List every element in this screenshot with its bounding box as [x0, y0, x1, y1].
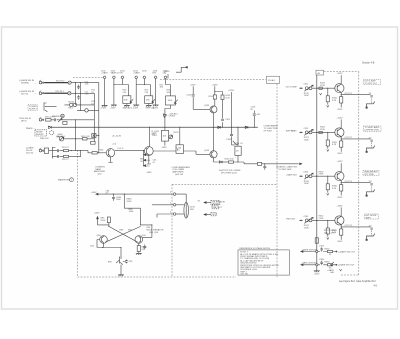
svg-text:Q64,133: Q64,133 — [175, 174, 184, 176]
svg-text:100K: 100K — [304, 139, 309, 141]
terminal delay B — [173, 204, 176, 207]
capacitor C85 — [123, 260, 128, 264]
wire Q334 emitter — [340, 180, 342, 195]
svg-text:OUT 21: OUT 21 — [345, 93, 353, 95]
wire Q324 emitter — [340, 137, 342, 152]
potentiometer arrow R364 — [331, 262, 334, 265]
wire base row 1 — [312, 87, 335, 89]
transistor Q64 follower — [144, 147, 153, 156]
resistor R325 — [340, 141, 343, 147]
wire Q324 collector — [340, 119, 342, 128]
svg-text:R52 27: R52 27 — [62, 159, 70, 161]
svg-text:10K: 10K — [160, 87, 164, 89]
wire row B — [302, 264, 336, 266]
svg-text:TRACE —: TRACE — — [26, 127, 37, 130]
ground TP2 — [111, 105, 117, 106]
wire input arrow 1 — [299, 87, 301, 89]
svg-text:Q84, Q94: Q84, Q94 — [149, 232, 159, 234]
resistor R364 — [328, 264, 333, 266]
resistor R160 — [213, 95, 216, 99]
capacitor plate coupling 1 — [370, 96, 373, 97]
svg-text:NE-2: NE-2 — [69, 108, 75, 110]
potentiometer R40 bal adj — [59, 137, 63, 141]
node annotation box right 3 — [363, 170, 379, 175]
wire input arrow 4 — [299, 220, 301, 222]
wire cal arrow 1 — [204, 202, 206, 204]
diode CR31 arrow — [58, 118, 62, 122]
resistor R146 — [229, 161, 234, 163]
ground TP4 — [133, 105, 139, 106]
svg-text:+300V: +300V — [164, 71, 171, 73]
svg-text:+GATE SIG: +GATE SIG — [286, 173, 297, 176]
terminal TP4 — [135, 76, 138, 79]
svg-text:50K: 50K — [146, 99, 150, 101]
capacitor C162 — [192, 95, 195, 96]
wire dashed boundary multivib vertical — [171, 184, 173, 277]
wire to R146 — [222, 161, 228, 163]
svg-text:8.2K: 8.2K — [332, 100, 337, 102]
wire Q344 collector — [340, 207, 342, 216]
connector J4 — [39, 149, 42, 152]
resistor base R314 47K — [327, 88, 328, 89]
wire row A out — [336, 251, 337, 252]
node notes box — [238, 250, 289, 275]
capacitor C364 — [320, 261, 323, 265]
capacitor C95 — [143, 245, 146, 250]
wire mid row b — [57, 151, 81, 157]
resistor base R344 27K — [327, 220, 328, 221]
ground R14 — [126, 104, 128, 106]
svg-text:OUT 22: OUT 22 — [345, 137, 353, 139]
svg-text:-150V: -150V — [101, 107, 107, 109]
svg-text:(DLY'D): (DLY'D) — [26, 152, 33, 154]
wire Q314 collector — [340, 75, 342, 84]
wire TP4 branch — [136, 85, 150, 96]
svg-text:R23 93.2: R23 93.2 — [56, 91, 65, 93]
capacitor C166 — [230, 134, 233, 135]
svg-text:R31 4.7K: R31 4.7K — [45, 116, 54, 118]
wire Q344 emitter — [340, 225, 342, 240]
svg-text:-150V: -150V — [337, 197, 343, 199]
node CRT plate lead 2 — [371, 142, 373, 148]
svg-text:-150V: -150V — [337, 153, 343, 155]
wire to delay line bottom — [176, 213, 184, 215]
resistor R51 — [64, 150, 69, 152]
svg-text:C161: C161 — [225, 119, 231, 121]
capacitor C149 stub — [263, 164, 266, 170]
svg-text:R145 330: R145 330 — [225, 159, 235, 161]
svg-text:10K: 10K — [163, 135, 167, 137]
svg-text:CAL OUT: CAL OUT — [213, 206, 223, 209]
resistor R345 — [340, 229, 343, 235]
svg-text:R38 4.7K: R38 4.7K — [40, 138, 49, 140]
wire out row to arrow — [262, 163, 299, 165]
svg-text:-GATE 20V/CM: -GATE 20V/CM — [302, 262, 317, 265]
wire row3b — [77, 109, 99, 111]
svg-text:270K: 270K — [319, 218, 324, 220]
wire dashed boundary left vertical — [77, 150, 79, 277]
junction dots bus A1 — [316, 88, 317, 89]
svg-text:WAVEFORM: WAVEFORM — [58, 179, 70, 182]
inductor box L146 — [176, 145, 184, 154]
svg-text:4.7K: 4.7K — [331, 233, 336, 235]
svg-text:+GATE 20V/CM: +GATE 20V/CM — [302, 248, 317, 251]
svg-text:-150V: -150V — [161, 147, 167, 149]
svg-text:AMPL: AMPL — [366, 217, 373, 220]
connector J3 — [39, 119, 42, 122]
svg-text:B1 B2: B1 B2 — [69, 101, 76, 103]
capacitor plate coupling 2 — [370, 140, 373, 141]
potentiometer R152 +150 adj — [161, 130, 168, 141]
capacitor trimmer input 3 — [304, 173, 313, 179]
svg-text:C331: C331 — [304, 172, 310, 174]
svg-text:SWP SIG: SWP SIG — [286, 131, 295, 133]
wire Q133 base — [193, 108, 210, 110]
resistor series input 2 — [319, 131, 322, 133]
transistor Q133 — [210, 106, 217, 113]
thermistor RT1 — [85, 109, 88, 112]
resistor R315 — [340, 97, 343, 103]
wire jog to out row — [234, 162, 258, 164]
wire Q324 output — [341, 138, 342, 139]
svg-text:C341: C341 — [304, 216, 310, 218]
capacitor C161 — [221, 119, 224, 120]
svg-text:270K: 270K — [320, 85, 325, 87]
wire Q94 emitter — [138, 243, 140, 253]
svg-text:CKT BD: CKT BD — [212, 203, 220, 205]
svg-text:SPLITTER Q143: SPLITTER Q143 — [221, 173, 237, 175]
svg-text:DLY'D SWP: DLY'D SWP — [286, 86, 298, 88]
diode CR141 on bus — [245, 126, 248, 128]
wire delay row3 — [157, 214, 173, 218]
svg-text:270K: 270K — [320, 129, 325, 131]
wire emitter row — [97, 152, 106, 154]
svg-text:Section 4-B: Section 4-B — [362, 62, 375, 65]
svg-text:220K: 220K — [127, 201, 132, 203]
wire row2 heavy — [44, 92, 67, 94]
ground Q94 — [136, 253, 142, 254]
resistor R44 on emitter row — [92, 152, 97, 154]
svg-text:Q133: Q133 — [204, 105, 210, 107]
wire row1 heavy — [44, 82, 68, 84]
ground row B chev — [340, 269, 342, 271]
svg-text:8.2K: 8.2K — [226, 98, 231, 100]
svg-text:R41 1.2K: R41 1.2K — [81, 136, 90, 138]
junction dots center — [113, 84, 114, 85]
wire delay row2 — [152, 204, 173, 206]
wire Q314 emitter — [340, 92, 342, 107]
wire bal row — [64, 138, 95, 140]
svg-text:220K: 220K — [101, 220, 106, 222]
resistor R33 — [63, 121, 67, 124]
wire R18 to +150 chain — [165, 105, 171, 130]
transistor E85 pickoff — [116, 257, 123, 275]
wire Q84 emitter — [103, 243, 105, 247]
capacitor trimmer input 4 — [304, 217, 313, 223]
svg-text:R21 93.2: R21 93.2 — [56, 80, 65, 82]
transistor Q94 — [135, 236, 143, 244]
svg-text:+125V: +125V — [337, 161, 344, 163]
diode CR150 at +150 adj — [163, 114, 166, 118]
switch SW1 bracket — [44, 103, 57, 112]
svg-text:FIG A-1: FIG A-1 — [268, 79, 276, 82]
svg-text:INVERT: INVERT — [36, 134, 44, 136]
ground TP1 — [102, 105, 108, 106]
transistor Q344 — [335, 216, 344, 225]
wire row4 drop — [75, 120, 77, 151]
svg-text:C162: C162 — [187, 95, 193, 97]
wire jog arrow to A1 — [176, 67, 185, 72]
svg-text:+100V: +100V — [212, 84, 219, 86]
node box A1 — [316, 70, 324, 75]
switch SW2 norm-invert dashed box — [35, 130, 54, 136]
svg-text:L54 .6: L54 .6 — [118, 148, 125, 150]
node CRT deflection plate 3 — [367, 189, 375, 194]
svg-text:-150V: -150V — [337, 109, 343, 111]
svg-text:CKT NO: CKT NO — [240, 273, 248, 275]
terminal TP3 — [121, 76, 124, 79]
wire base row 2 — [312, 131, 335, 133]
resistor base R324 47K — [327, 132, 328, 133]
svg-text:27K: 27K — [145, 92, 149, 94]
svg-text:R158 .01: R158 .01 — [234, 143, 243, 145]
wire input arrow 2 — [299, 132, 301, 134]
svg-text:CRT GRID: CRT GRID — [364, 174, 374, 176]
capacitor C354 — [320, 247, 323, 251]
svg-text:OUT 23: OUT 23 — [345, 181, 353, 183]
resistor R83 — [107, 217, 110, 223]
terminal TP1 — [103, 76, 106, 79]
svg-text:8.2K: 8.2K — [332, 188, 337, 190]
junction dots amp — [98, 135, 99, 136]
wire mid row a — [52, 151, 92, 153]
terminal delay A — [173, 193, 176, 196]
resistor R354 — [328, 250, 333, 252]
transistor Q314 — [335, 84, 344, 93]
node annotation box right 4 — [365, 214, 379, 219]
wire Q64 emitter down — [147, 155, 151, 164]
switch SW3 bracket — [49, 147, 57, 159]
lamp B2 — [73, 103, 76, 106]
wire +150V column — [192, 86, 194, 109]
ground TP6 — [153, 105, 159, 106]
wire TP2 branch — [114, 85, 128, 96]
wire Q64 collector up — [149, 127, 151, 147]
resistor R95 — [137, 246, 140, 252]
wire K2 stub — [96, 135, 99, 137]
node box FIG reference — [267, 76, 280, 83]
svg-text:see Figure B-2, Gate Amplifier: see Figure B-2, Gate Amplifier Ref — [339, 280, 376, 283]
svg-text:R354: R354 — [325, 248, 331, 250]
terminal TP2 — [113, 76, 116, 79]
resistor base R334 27K — [327, 176, 328, 177]
ground bus A1 bottom — [314, 271, 320, 272]
capacitor box C43 — [91, 141, 96, 144]
wire feedback right — [141, 225, 152, 238]
svg-text:100K: 100K — [304, 227, 309, 229]
svg-text:(+)GATE SIG OUT: (+)GATE SIG OUT — [338, 250, 356, 253]
svg-text:-150V: -150V — [133, 107, 139, 109]
svg-text:100K: 100K — [304, 95, 309, 97]
svg-text:REFERENCE VOLTAGE NOTES: REFERENCE VOLTAGE NOTES — [240, 247, 271, 250]
relay K1 box — [44, 148, 48, 153]
transistor Q334 — [335, 172, 344, 181]
potentiometer box R18 — [166, 96, 176, 105]
terminal delay C — [173, 213, 176, 216]
svg-text:TRIG SIG: TRIG SIG — [286, 219, 296, 221]
svg-text:C166: C166 — [226, 139, 232, 141]
svg-text:+100V: +100V — [337, 205, 344, 207]
wire base row 3 — [312, 175, 335, 177]
svg-text:8.2K: 8.2K — [332, 144, 337, 146]
wire Q54 collector out — [115, 150, 145, 152]
wire Q344 output — [341, 226, 342, 227]
inductor DL90 delay line — [184, 202, 189, 218]
connector bead row A — [316, 250, 318, 252]
wire R166 column — [232, 92, 235, 145]
svg-text:+100V: +100V — [94, 212, 101, 214]
svg-text:10K: 10K — [324, 233, 328, 235]
svg-text:SUPPLY: SUPPLY — [29, 109, 38, 111]
svg-text:100K: 100K — [304, 183, 309, 185]
svg-text:+125V: +125V — [337, 117, 344, 119]
svg-text:(DLY'D): (DLY'D) — [21, 93, 28, 95]
svg-text:TO CRT CKT: TO CRT CKT — [365, 83, 378, 85]
diode CR1 on trace row — [49, 126, 52, 128]
wire +100V column — [214, 86, 216, 106]
wire Q64 out to L146 — [153, 150, 176, 152]
transistor Q84 — [100, 236, 108, 244]
wire dashed boundary to A1 box — [324, 71, 359, 73]
label power dashed box — [28, 105, 37, 111]
svg-text:(-)GATE SIG OUT: (-)GATE SIG OUT — [338, 264, 355, 267]
svg-text:BAL ADJ: BAL ADJ — [57, 135, 65, 138]
resistor R21 variable circle — [68, 81, 71, 84]
test ticks column — [143, 151, 145, 167]
supply arrow +100V — [98, 217, 109, 225]
capacitor C51 — [58, 149, 59, 152]
capacitor trimmer input 2 — [304, 129, 313, 135]
transistor Q324 — [335, 128, 344, 137]
resistor R23 variable circle — [68, 92, 71, 95]
ground base 3 — [327, 193, 329, 195]
svg-text:→: → — [35, 93, 37, 95]
svg-text:OUT 24: OUT 24 — [345, 225, 353, 227]
svg-text:27K: 27K — [123, 92, 127, 94]
wire bus y127.3 main — [52, 126, 258, 128]
svg-text:CR150: CR150 — [169, 116, 176, 118]
lamp B1 — [70, 103, 73, 106]
svg-text:→: → — [35, 82, 37, 84]
svg-text:CRT: CRT — [212, 214, 217, 216]
wire bus x80.3 — [79, 83, 81, 111]
wire Q314 output — [341, 94, 342, 95]
svg-text:A +10.4V: A +10.4V — [113, 135, 122, 138]
wire dashed input row1 top link — [73, 77, 103, 79]
diode CR140 on bus — [218, 126, 221, 128]
wire cross coupling A — [109, 226, 138, 242]
capacitor C84 branch — [112, 194, 115, 201]
svg-text:270K: 270K — [319, 174, 324, 176]
svg-text:-150V: -150V — [146, 172, 152, 174]
node CRT deflection plate 4 — [367, 234, 375, 239]
wire Q84 base left — [97, 240, 100, 248]
svg-text:+150V: +150V — [190, 84, 197, 86]
svg-text:100K: 100K — [129, 211, 134, 213]
resistor R352 on bus — [315, 238, 318, 243]
node cal box 2 — [212, 206, 218, 209]
svg-text:(UPPER) GRID: (UPPER) GRID — [365, 130, 380, 132]
wire below R152 — [164, 141, 166, 146]
wire row1 to corner — [71, 83, 98, 153]
wire dashed boundary bottom right — [341, 274, 359, 276]
node +300V stub — [167, 74, 169, 78]
node CRT deflection plate 1 — [367, 101, 375, 106]
svg-text:GAIN ADJ: GAIN ADJ — [123, 106, 132, 109]
wire Q54 emitter bottom — [108, 157, 112, 163]
resistor R41 — [82, 138, 87, 140]
connector bead row B — [316, 264, 318, 266]
svg-text:+100V: +100V — [91, 192, 98, 194]
svg-text:R51 27: R51 27 — [62, 147, 70, 149]
node annotation box right 2 — [364, 126, 382, 132]
wire corner drop x124 — [124, 194, 140, 225]
node CRT plate lead 3 — [371, 186, 373, 192]
wire row A — [302, 251, 336, 253]
svg-text:-1.4V: -1.4V — [146, 155, 152, 157]
svg-text:50K: 50K — [124, 99, 128, 101]
connector J1 — [39, 81, 42, 84]
svg-text:50K: 50K — [167, 92, 171, 94]
svg-text:R160: R160 — [209, 96, 215, 98]
ground E85 — [118, 275, 124, 276]
capacitor trimmer input 1 — [304, 85, 313, 91]
capacitor C31 — [55, 118, 56, 121]
terminal TP7 — [164, 76, 167, 79]
wire Q143 emitter row — [214, 158, 220, 162]
svg-text:R364: R364 — [325, 261, 331, 263]
terminal TP5 — [143, 76, 146, 79]
svg-text:-150V: -150V — [314, 274, 320, 276]
svg-text:100K: 100K — [168, 100, 173, 102]
wire bus x75.5 — [75, 83, 77, 105]
wire branch to R161 — [215, 92, 223, 128]
wire multivib top row — [97, 193, 173, 195]
wire C167 column — [253, 111, 255, 128]
potentiometer box R14 — [123, 96, 131, 104]
junction dots multivib — [113, 194, 114, 195]
relay box K2 — [92, 134, 96, 138]
resistor series input 1 — [319, 87, 322, 89]
svg-text:OF R167: OF R167 — [264, 130, 273, 132]
svg-text:(EXT): (EXT) — [21, 120, 27, 122]
capacitor plate coupling 4 — [370, 228, 373, 229]
capacitor C11 — [77, 85, 80, 90]
svg-text:C311: C311 — [304, 84, 310, 86]
wire base row 4 — [312, 219, 335, 221]
svg-text:+GATE: +GATE — [101, 72, 108, 75]
wire arrowhead delayed gate — [300, 163, 302, 165]
ground R16 — [148, 104, 150, 106]
wire bus drop to pot R158 — [237, 127, 239, 162]
capacitor plate coupling 3 — [370, 184, 373, 185]
node CRT plate lead 4 — [371, 230, 373, 236]
wire cascode chain — [213, 113, 215, 151]
wire row2 to corner — [71, 93, 94, 141]
wire dashed boundary right vertical — [358, 72, 360, 275]
ground input cluster 1 — [320, 93, 322, 95]
junction dots left rows — [75, 82, 76, 83]
